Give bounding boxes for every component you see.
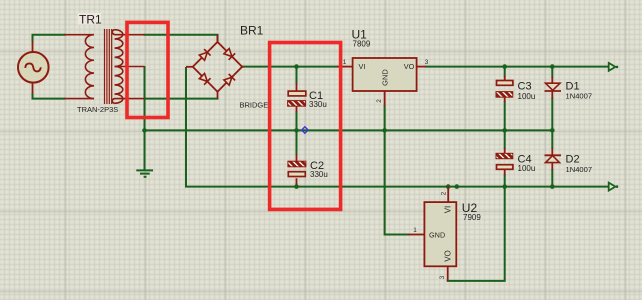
svg-text:7909: 7909 <box>463 213 481 222</box>
svg-text:GND: GND <box>429 231 445 240</box>
svg-text:D1: D1 <box>566 80 580 92</box>
svg-text:1N4007: 1N4007 <box>566 92 593 101</box>
svg-text:1: 1 <box>343 59 347 66</box>
svg-text:GND: GND <box>381 69 390 86</box>
svg-text:2: 2 <box>441 191 448 195</box>
svg-text:1N4007: 1N4007 <box>566 165 593 174</box>
svg-text:TR1: TR1 <box>79 13 102 27</box>
svg-text:100u: 100u <box>518 92 536 101</box>
svg-text:BR1: BR1 <box>240 24 264 38</box>
svg-text:VO: VO <box>444 250 453 262</box>
svg-text:TRAN-2P3S: TRAN-2P3S <box>77 105 118 114</box>
svg-text:2: 2 <box>376 99 383 103</box>
svg-text:VO: VO <box>404 62 415 71</box>
svg-text:C3: C3 <box>518 80 532 92</box>
svg-text:VI: VI <box>444 206 453 214</box>
svg-text:7809: 7809 <box>353 40 371 49</box>
svg-text:VI: VI <box>359 62 366 71</box>
svg-text:3: 3 <box>439 275 446 279</box>
svg-text:100u: 100u <box>518 164 536 173</box>
svg-text:3: 3 <box>425 59 429 66</box>
svg-text:BRIDGE: BRIDGE <box>240 100 269 109</box>
svg-text:1: 1 <box>413 227 417 234</box>
svg-text:330u: 330u <box>309 100 327 109</box>
svg-text:330u: 330u <box>310 170 328 179</box>
svg-text:D2: D2 <box>566 154 580 166</box>
